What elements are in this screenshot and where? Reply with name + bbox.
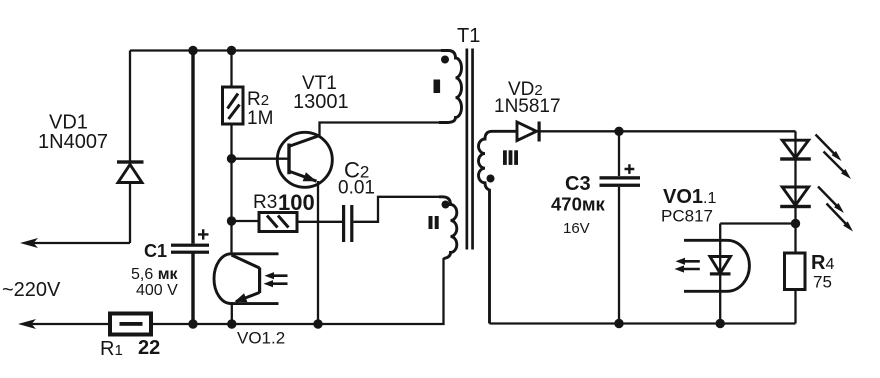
label winding III: [503, 150, 518, 165]
capacitor C2: [342, 205, 353, 242]
diode VD2: [517, 122, 541, 142]
svg-text:VO1.2: VO1.2: [237, 329, 285, 348]
LED HL2 cathode bar: [780, 205, 811, 208]
LED HL1: [782, 140, 808, 158]
wire secondary top rail: [541, 130, 796, 132]
svg-text:16V: 16V: [563, 220, 590, 237]
wire top rail: [130, 49, 442, 51]
svg-text:400 V: 400 V: [136, 282, 178, 299]
LED HL2: [782, 187, 808, 205]
svg-text:13001: 13001: [293, 91, 349, 113]
LED HL1 cathode bar: [780, 157, 811, 160]
node bottom rail VO1.2 junction: [227, 319, 236, 328]
svg-text:~220V: ~220V: [2, 279, 61, 301]
svg-text:R2: R2: [247, 89, 269, 110]
capacitor C3: [600, 164, 641, 187]
AC input lower arrow: [18, 319, 36, 329]
transformer T1 winding II: [439, 197, 457, 259]
winding II polarity dot: [442, 201, 450, 209]
diode VD1: [117, 160, 144, 182]
winding III polarity dot: [487, 175, 495, 183]
transformer T1 winding III: [479, 131, 518, 323]
transformer T1 winding I: [439, 51, 462, 123]
capacitor C1: [171, 229, 209, 254]
wire C3 column: [618, 131, 620, 323]
wire primary bottom rail right: [151, 258, 444, 324]
wire VT1 emitter down: [317, 181, 319, 324]
wire LED chain: [794, 131, 796, 253]
wire R2 column top: [230, 51, 232, 88]
svg-text:22: 22: [138, 337, 160, 359]
svg-text:R4: R4: [811, 252, 834, 274]
wire R3 right to C2: [297, 221, 342, 223]
svg-text:R1: R1: [100, 338, 123, 360]
svg-text:PC817: PC817: [661, 207, 713, 226]
wire primary bottom rail left: [26, 323, 110, 325]
svg-text:VO1.1: VO1.1: [663, 186, 716, 208]
wire R2 column bottom to VO1.2: [230, 124, 232, 254]
resistor R4: [785, 253, 806, 290]
wire VO1.2 emitter to rail: [231, 302, 233, 324]
svg-text:T1: T1: [457, 25, 480, 47]
wire VO1.1 anode junction wire: [720, 222, 795, 224]
optocoupler phototransistor VO1.2: [214, 254, 288, 304]
node bottom rail C1 junction: [188, 319, 197, 328]
node secondary bottom rail VO1.1 junction: [716, 319, 725, 328]
transformer T1 core: [466, 49, 469, 250]
svg-text:5,6 мк: 5,6 мк: [131, 266, 179, 283]
wire secondary bottom rail: [490, 322, 796, 324]
svg-text:C3: C3: [565, 173, 591, 195]
wire R4 bottom: [794, 290, 796, 324]
label winding II: [429, 216, 439, 229]
node secondary top rail C3 junction: [614, 127, 623, 136]
node top rail R2 junction: [227, 46, 236, 55]
node LED R4 VO1.1 junction: [791, 219, 800, 228]
winding I polarity dot: [441, 56, 449, 64]
node top rail C1 junction: [188, 46, 197, 55]
node R3 junction: [227, 216, 236, 225]
wire base of VT1: [232, 158, 288, 160]
node VT1 base junction: [227, 154, 236, 163]
LED HL1 emission arrows: [816, 135, 852, 180]
wire C1 column: [191, 51, 194, 325]
svg-text:R3: R3: [253, 192, 277, 213]
svg-text:1N4007: 1N4007: [38, 131, 108, 153]
wire VD1 branch vertical: [129, 51, 131, 244]
svg-text:100: 100: [278, 190, 315, 215]
svg-text:C1: C1: [144, 241, 167, 261]
resistor R2: [223, 87, 244, 124]
AC input upper arrow: [20, 238, 38, 248]
transistor VT1: [277, 132, 332, 187]
optocoupler LED VO1.1: [675, 224, 750, 324]
label winding I: [434, 80, 441, 94]
node secondary bottom rail C3 junction: [614, 319, 623, 328]
svg-text:1N5817: 1N5817: [494, 96, 561, 117]
wire C2 right to winding II: [354, 197, 441, 222]
svg-text:470мк: 470мк: [551, 194, 606, 215]
svg-text:0.01: 0.01: [338, 178, 375, 199]
wire R3 left: [232, 220, 260, 222]
resistor R3: [259, 213, 297, 232]
svg-text:75: 75: [813, 273, 832, 292]
wire AC input upper line: [28, 242, 130, 244]
svg-text:1M: 1M: [247, 108, 273, 129]
LED HL2 emission arrows: [818, 187, 853, 232]
wire VT1 collector to winding I: [320, 123, 442, 137]
node bottom rail VT1 emitter junction: [313, 319, 322, 328]
resistor R1: [110, 314, 151, 335]
